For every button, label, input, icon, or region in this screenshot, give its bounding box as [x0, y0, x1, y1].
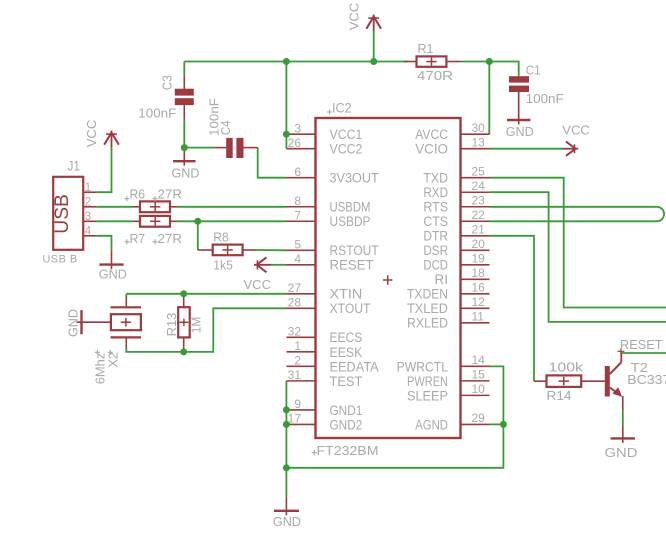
svg-text:GND: GND	[506, 124, 534, 139]
svg-text:XTIN: XTIN	[330, 287, 363, 302]
svg-text:BC337: BC337	[627, 372, 666, 387]
svg-text:RESET: RESET	[620, 337, 663, 352]
svg-text:J1: J1	[68, 159, 81, 174]
svg-text:RXLED: RXLED	[407, 316, 448, 331]
svg-text:27R: 27R	[158, 231, 183, 246]
svg-text:R1: R1	[418, 41, 434, 56]
svg-text:VCC1: VCC1	[330, 127, 363, 142]
svg-text:VCC: VCC	[346, 3, 361, 31]
svg-text:16: 16	[472, 281, 486, 295]
svg-text:USB: USB	[51, 194, 73, 234]
svg-text:TXDEN: TXDEN	[407, 287, 448, 302]
svg-text:USBDM: USBDM	[330, 200, 371, 215]
svg-text:1M: 1M	[188, 317, 203, 334]
svg-text:32: 32	[288, 325, 302, 339]
svg-text:XTOUT: XTOUT	[330, 301, 371, 316]
svg-text:R13: R13	[164, 313, 179, 337]
svg-text:AVCC: AVCC	[415, 127, 448, 142]
svg-text:C3: C3	[159, 75, 174, 90]
svg-text:RSTOUT: RSTOUT	[330, 243, 379, 258]
svg-text:22: 22	[472, 208, 486, 222]
svg-text:10: 10	[472, 382, 486, 396]
svg-text:4: 4	[294, 252, 301, 266]
svg-text:1: 1	[85, 182, 91, 194]
svg-text:GND1: GND1	[330, 403, 363, 418]
svg-text:DCD: DCD	[423, 258, 448, 273]
svg-text:27: 27	[288, 281, 302, 295]
svg-text:RXD: RXD	[423, 185, 448, 200]
svg-text:24: 24	[472, 179, 486, 193]
svg-text:TEST: TEST	[330, 374, 363, 389]
svg-text:DSR: DSR	[423, 243, 448, 258]
svg-text:R7: R7	[130, 231, 146, 246]
svg-text:DTR: DTR	[423, 229, 448, 244]
svg-text:IC2: IC2	[332, 101, 352, 116]
svg-text:9: 9	[294, 397, 301, 411]
svg-text:17: 17	[288, 412, 302, 426]
svg-text:GND: GND	[66, 309, 81, 337]
svg-text:19: 19	[472, 251, 486, 265]
svg-text:GND: GND	[605, 445, 638, 460]
svg-text:PWRCTL: PWRCTL	[397, 359, 449, 374]
svg-text:100nF: 100nF	[138, 105, 176, 120]
svg-text:EECS: EECS	[330, 330, 363, 345]
svg-text:11: 11	[472, 310, 485, 324]
svg-text:25: 25	[472, 164, 486, 178]
svg-text:PWREN: PWREN	[407, 374, 448, 389]
svg-text:VCC: VCC	[562, 123, 590, 138]
svg-text:3: 3	[294, 121, 301, 135]
svg-text:VCC2: VCC2	[330, 142, 363, 157]
svg-text:USB B: USB B	[42, 254, 77, 266]
svg-text:6: 6	[294, 165, 301, 179]
svg-text:R8: R8	[213, 229, 229, 244]
svg-text:3: 3	[85, 211, 91, 223]
svg-text:30: 30	[472, 121, 486, 135]
svg-text:4: 4	[85, 226, 92, 238]
svg-text:RTS: RTS	[423, 200, 448, 215]
svg-text:2: 2	[294, 354, 301, 368]
svg-text:R6: R6	[130, 186, 146, 201]
svg-text:EEDATA: EEDATA	[330, 359, 379, 374]
svg-text:GND: GND	[273, 514, 301, 529]
svg-text:X2: X2	[106, 352, 121, 368]
svg-text:7: 7	[294, 208, 301, 222]
svg-text:VCIO: VCIO	[415, 142, 448, 157]
svg-text:23: 23	[472, 193, 486, 207]
svg-text:100nF: 100nF	[526, 91, 564, 106]
svg-text:100k: 100k	[549, 359, 584, 374]
svg-text:VCC: VCC	[84, 120, 99, 148]
svg-text:470R: 470R	[417, 68, 453, 83]
svg-text:R14: R14	[547, 388, 572, 403]
svg-text:TXD: TXD	[423, 171, 448, 186]
svg-text:SLEEP: SLEEP	[407, 388, 448, 403]
svg-text:31: 31	[288, 368, 302, 382]
svg-text:8: 8	[294, 194, 301, 208]
svg-text:1: 1	[294, 339, 301, 353]
svg-text:28: 28	[288, 296, 302, 310]
svg-text:21: 21	[472, 222, 486, 236]
svg-text:3V3OUT: 3V3OUT	[330, 171, 379, 186]
svg-text:13: 13	[472, 135, 486, 149]
svg-text:TXLED: TXLED	[407, 301, 448, 316]
svg-text:EESK: EESK	[330, 345, 363, 360]
svg-text:18: 18	[472, 266, 486, 280]
svg-text:USBDP: USBDP	[330, 214, 371, 229]
svg-text:C4: C4	[218, 120, 233, 135]
svg-text:15: 15	[472, 368, 486, 382]
svg-text:14: 14	[472, 353, 486, 367]
svg-text:GND: GND	[99, 267, 127, 282]
svg-text:RESET: RESET	[330, 258, 374, 273]
svg-text:CTS: CTS	[423, 214, 448, 229]
svg-text:5: 5	[294, 237, 301, 251]
svg-text:26: 26	[288, 136, 302, 150]
svg-text:12: 12	[472, 295, 486, 309]
svg-text:2: 2	[85, 197, 91, 209]
svg-text:RI: RI	[435, 272, 449, 287]
svg-text:27R: 27R	[158, 186, 183, 201]
svg-text:AGND: AGND	[415, 417, 448, 432]
svg-text:1k5: 1k5	[213, 257, 233, 272]
svg-text:VCC: VCC	[244, 277, 272, 292]
svg-text:20: 20	[472, 237, 486, 251]
svg-text:GND: GND	[172, 165, 200, 180]
svg-text:FT232BM: FT232BM	[317, 443, 379, 458]
svg-text:29: 29	[472, 411, 486, 425]
svg-text:GND2: GND2	[330, 417, 363, 432]
svg-text:C1: C1	[526, 63, 541, 78]
